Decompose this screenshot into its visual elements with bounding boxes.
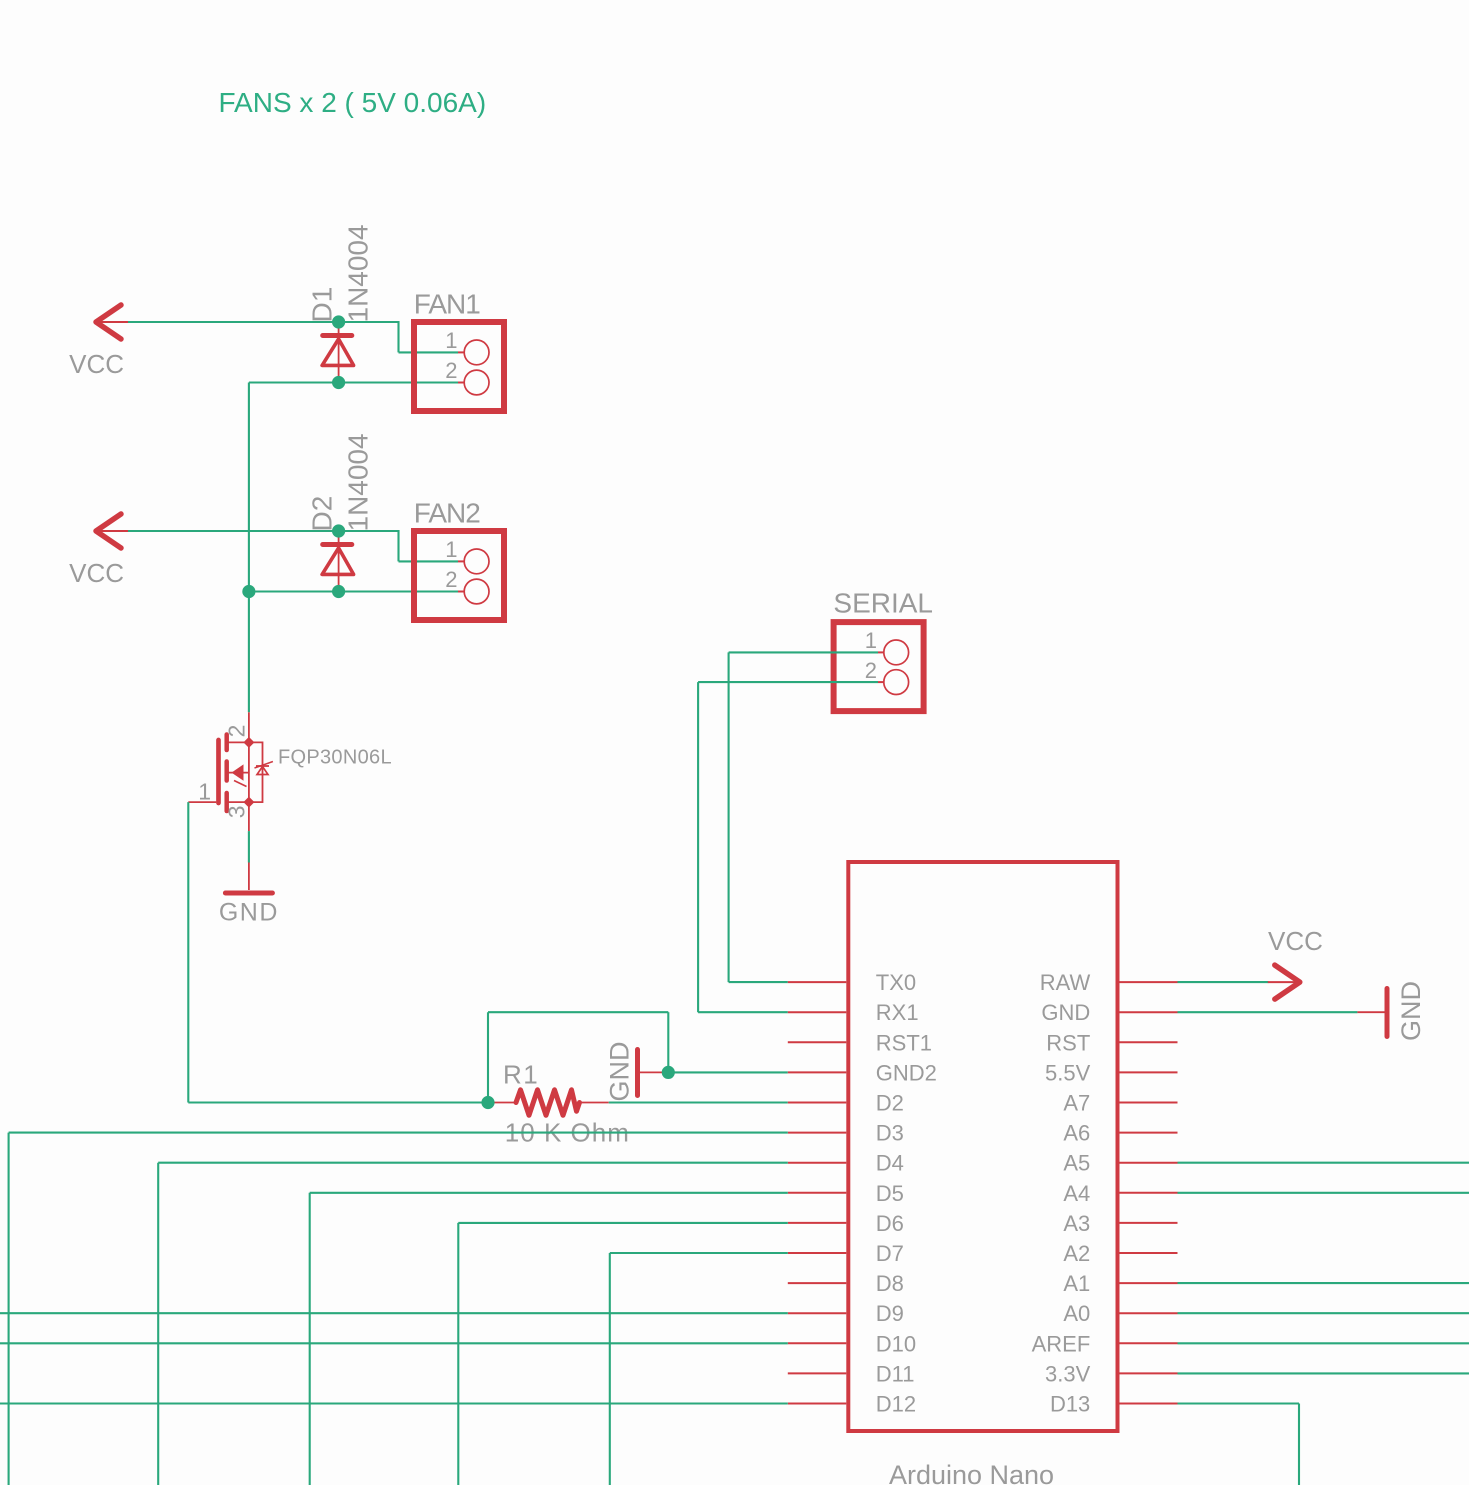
svg-text:1N4004: 1N4004 xyxy=(343,433,374,531)
svg-text:D3: D3 xyxy=(876,1121,904,1146)
svg-text:TX0: TX0 xyxy=(876,970,916,995)
svg-text:D5: D5 xyxy=(876,1181,904,1206)
svg-text:D4: D4 xyxy=(876,1151,904,1176)
svg-text:FAN1: FAN1 xyxy=(414,288,480,319)
svg-text:A0: A0 xyxy=(1063,1301,1090,1326)
svg-text:3: 3 xyxy=(224,805,250,818)
svg-text:A1: A1 xyxy=(1063,1271,1090,1296)
svg-text:1: 1 xyxy=(865,628,877,653)
svg-text:FANS x 2 ( 5V 0.06A): FANS x 2 ( 5V 0.06A) xyxy=(219,87,487,118)
svg-text:A2: A2 xyxy=(1063,1241,1090,1266)
svg-text:A6: A6 xyxy=(1063,1121,1090,1146)
svg-text:GND: GND xyxy=(605,1042,635,1102)
svg-text:1N4004: 1N4004 xyxy=(343,224,374,322)
svg-text:3.3V: 3.3V xyxy=(1045,1361,1091,1386)
svg-text:D10: D10 xyxy=(876,1331,916,1356)
svg-text:D1: D1 xyxy=(307,287,338,323)
svg-text:2: 2 xyxy=(445,358,457,383)
svg-text:1: 1 xyxy=(445,328,457,353)
svg-text:D7: D7 xyxy=(876,1241,904,1266)
svg-text:VCC: VCC xyxy=(69,349,124,379)
svg-text:VCC: VCC xyxy=(69,558,124,588)
svg-text:D8: D8 xyxy=(876,1271,904,1296)
svg-text:RAW: RAW xyxy=(1040,970,1091,995)
svg-text:D13: D13 xyxy=(1050,1392,1090,1417)
svg-text:A5: A5 xyxy=(1063,1151,1090,1176)
svg-text:D2: D2 xyxy=(307,496,338,532)
svg-text:FQP30N06L: FQP30N06L xyxy=(278,747,392,769)
svg-text:GND: GND xyxy=(1041,1000,1090,1025)
svg-text:1: 1 xyxy=(198,779,211,805)
svg-text:FAN2: FAN2 xyxy=(414,497,480,528)
svg-text:RST: RST xyxy=(1046,1030,1090,1055)
svg-text:D2: D2 xyxy=(876,1091,904,1116)
svg-text:D6: D6 xyxy=(876,1211,904,1236)
svg-text:2: 2 xyxy=(224,725,250,738)
svg-text:A4: A4 xyxy=(1063,1181,1090,1206)
svg-text:SERIAL: SERIAL xyxy=(833,587,933,618)
svg-text:GND: GND xyxy=(1396,981,1426,1041)
svg-text:1: 1 xyxy=(445,537,457,562)
svg-text:D12: D12 xyxy=(876,1392,916,1417)
svg-text:A7: A7 xyxy=(1063,1091,1090,1116)
svg-text:RX1: RX1 xyxy=(876,1000,919,1025)
svg-text:Arduino Nano: Arduino Nano xyxy=(889,1460,1054,1485)
svg-text:2: 2 xyxy=(865,658,877,683)
svg-text:GND: GND xyxy=(219,899,279,927)
svg-text:GND2: GND2 xyxy=(876,1060,937,1085)
svg-text:D11: D11 xyxy=(876,1361,915,1386)
svg-text:2: 2 xyxy=(445,567,457,592)
svg-text:D9: D9 xyxy=(876,1301,904,1326)
svg-text:RST1: RST1 xyxy=(876,1030,932,1055)
svg-text:VCC: VCC xyxy=(1268,926,1323,956)
svg-text:R1: R1 xyxy=(503,1059,539,1089)
svg-text:AREF: AREF xyxy=(1032,1331,1091,1356)
svg-text:A3: A3 xyxy=(1063,1211,1090,1236)
svg-text:5.5V: 5.5V xyxy=(1045,1060,1091,1085)
